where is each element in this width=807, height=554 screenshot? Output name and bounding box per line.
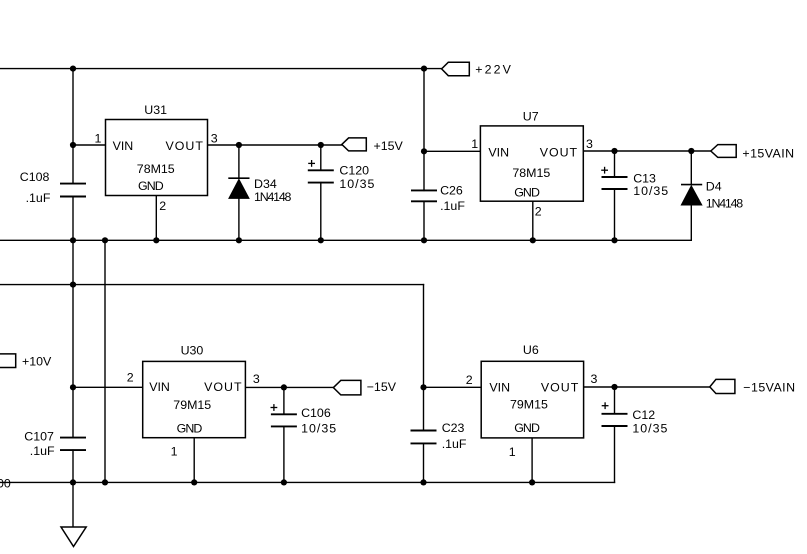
- wire vertical x73 from +22V rail to C108 top: [72, 69, 74, 184]
- regulator U31 body: [106, 120, 208, 196]
- svg-text:3: 3: [253, 372, 260, 386]
- wire C23 bottom lead: [423, 443, 425, 482]
- svg-text:VIN: VIN: [149, 380, 170, 394]
- svg-text:VOUT: VOUT: [540, 145, 578, 159]
- svg-text:79M15: 79M15: [173, 398, 211, 412]
- wire D4 top lead: [690, 151, 692, 185]
- svg-text:C120: C120: [339, 164, 369, 178]
- svg-text:C107: C107: [24, 430, 54, 444]
- power flag +22V: [442, 62, 470, 75]
- wire U6 pin2 VIN stub: [424, 386, 482, 388]
- wire C13 top lead: [614, 151, 616, 177]
- svg-text:10/35: 10/35: [632, 421, 668, 435]
- wire C26 bottom lead: [423, 201, 425, 240]
- wire U30 pin2 VIN stub: [73, 386, 143, 388]
- wire D34 top lead: [238, 145, 240, 178]
- svg-text:.1uF: .1uF: [442, 437, 467, 451]
- regulator U7 body: [480, 126, 583, 201]
- svg-text:3: 3: [211, 131, 218, 145]
- capacitor C106 plus sign: [271, 404, 278, 411]
- wire vertical x105 rail1 to rail3: [104, 240, 106, 482]
- svg-text:1: 1: [509, 445, 516, 459]
- wire ground symbol lead: [72, 482, 74, 527]
- svg-text:VOUT: VOUT: [166, 139, 204, 153]
- wire D34 bottom lead: [238, 198, 240, 240]
- wire U30 pin3 VOUT net to -15V flag: [245, 386, 333, 388]
- power flag +10V (clipped at left edge): [0, 354, 16, 368]
- wire D4 bottom lead: [690, 205, 692, 240]
- ground symbol: [61, 527, 86, 547]
- wire U31 pin3 VOUT net to +15V flag: [208, 144, 342, 146]
- svg-text:+15VAIN: +15VAIN: [742, 146, 794, 160]
- svg-text:C106: C106: [301, 406, 331, 420]
- capacitor C12 plus sign: [602, 402, 609, 409]
- capacitor C120 plates: [308, 170, 334, 182]
- svg-text:VOUT: VOUT: [204, 380, 242, 394]
- wire C120 top lead: [320, 145, 322, 170]
- wire U7 pin1 VIN stub: [424, 150, 480, 152]
- regulator U30 body: [143, 361, 246, 437]
- svg-text:2: 2: [535, 205, 542, 219]
- wire C120 bottom lead: [320, 183, 322, 241]
- diode D34: [228, 178, 249, 198]
- wire U6 pin3 VOUT net to -15VAIN flag: [584, 386, 710, 388]
- svg-text:1N4148: 1N4148: [706, 197, 744, 211]
- wire vertical x424 from +22V junction to C26: [423, 69, 425, 191]
- svg-text:.1uF: .1uF: [30, 444, 55, 458]
- capacitor C23 plates: [411, 431, 437, 444]
- svg-text:GND: GND: [514, 421, 540, 435]
- svg-text:78M15: 78M15: [137, 162, 175, 176]
- svg-text:D4: D4: [706, 180, 722, 194]
- wire C13 bottom lead: [614, 189, 616, 240]
- wire C12 top lead: [614, 387, 616, 414]
- svg-text:C108: C108: [20, 170, 50, 184]
- wire ground rail bottom circuit: [0, 481, 615, 483]
- wire +22V input rail: [0, 68, 442, 70]
- capacitor C107 plates: [60, 438, 86, 451]
- svg-text:3: 3: [591, 372, 598, 386]
- svg-text:1N4148: 1N4148: [254, 190, 292, 204]
- wire C106 bottom lead: [283, 426, 285, 482]
- svg-text:00: 00: [0, 476, 11, 490]
- svg-text:−15VAIN: −15VAIN: [743, 380, 795, 394]
- svg-text:+10V: +10V: [22, 355, 52, 369]
- svg-text:GND: GND: [514, 185, 540, 199]
- svg-text:U7: U7: [523, 110, 539, 124]
- capacitor C13 plates: [602, 177, 628, 189]
- svg-text:79M15: 79M15: [510, 398, 548, 412]
- capacitor C26 plates: [411, 190, 437, 201]
- svg-text:2: 2: [159, 199, 166, 213]
- capacitor C106 plates: [271, 414, 297, 426]
- wire C108 bottom lead to ground rail: [72, 197, 74, 241]
- svg-text:GND: GND: [177, 421, 203, 435]
- svg-text:2: 2: [127, 371, 134, 385]
- svg-text:3: 3: [586, 137, 593, 151]
- svg-text:C26: C26: [440, 183, 463, 197]
- svg-text:VIN: VIN: [113, 139, 134, 153]
- capacitor C108 plates: [60, 184, 86, 197]
- wire U30 GND pin1 stub: [193, 438, 195, 483]
- wire vertical x73 rail2 to C107 top: [72, 285, 74, 438]
- svg-text:GND: GND: [138, 179, 164, 193]
- svg-text:10/35: 10/35: [633, 184, 669, 198]
- svg-text:.1uF: .1uF: [440, 199, 465, 213]
- wire vertical x423 rail2 corner to C23: [423, 285, 425, 431]
- wire C12 bottom lead to rail3 corner: [614, 426, 616, 482]
- capacitor C120 plus sign: [308, 160, 315, 167]
- svg-text:U6: U6: [523, 343, 539, 357]
- wire C106 top lead: [283, 387, 285, 414]
- capacitor C13 plus sign: [601, 167, 608, 174]
- wire U6 GND pin1 stub: [531, 438, 533, 483]
- regulator U6 body: [481, 361, 583, 438]
- svg-text:1: 1: [95, 131, 102, 145]
- svg-text:+22V: +22V: [475, 63, 513, 77]
- wire second input rail: [0, 284, 424, 286]
- svg-text:VOUT: VOUT: [541, 381, 579, 395]
- wire U7 pin3 VOUT net to +15VAIN flag: [583, 150, 711, 152]
- wire U7 GND pin2 stub: [532, 201, 534, 240]
- svg-text:.1uF: .1uF: [26, 191, 51, 205]
- power flag -15V: [333, 380, 361, 395]
- svg-text:1: 1: [171, 445, 178, 459]
- svg-text:1: 1: [471, 137, 478, 151]
- svg-text:U31: U31: [144, 103, 167, 117]
- capacitor C12 plates: [602, 414, 628, 426]
- svg-text:10/35: 10/35: [339, 177, 375, 191]
- svg-text:−15V: −15V: [367, 380, 397, 394]
- svg-text:2: 2: [466, 373, 473, 387]
- power flag +15VAIN: [711, 145, 736, 158]
- wire U31 pin1 VIN stub: [73, 144, 106, 146]
- svg-text:C12: C12: [632, 408, 655, 422]
- svg-text:10/35: 10/35: [301, 421, 337, 435]
- wire vertical x73 rail1 to rail2: [72, 240, 74, 284]
- diode D4: [681, 185, 702, 205]
- wire C107 bottom lead: [72, 450, 74, 482]
- wire ground rail top circuit: [0, 239, 691, 241]
- power flag -15VAIN: [710, 379, 735, 393]
- svg-text:+15V: +15V: [374, 139, 404, 153]
- svg-text:C23: C23: [442, 421, 465, 435]
- power flag +15V: [342, 138, 367, 151]
- wire U31 GND pin2 stub: [155, 196, 157, 241]
- svg-text:VIN: VIN: [488, 145, 509, 159]
- svg-text:U30: U30: [181, 343, 204, 357]
- svg-text:VIN: VIN: [489, 381, 510, 395]
- svg-text:78M15: 78M15: [512, 166, 550, 180]
